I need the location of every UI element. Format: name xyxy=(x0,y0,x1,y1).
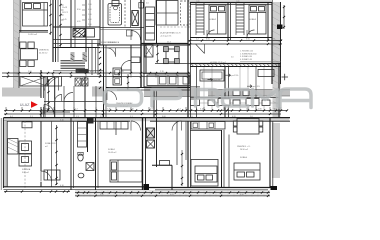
dining table xyxy=(21,49,38,60)
shaft wall x145.5 xyxy=(145,117,147,190)
bed top-left xyxy=(23,3,48,27)
watermark letter P xyxy=(152,90,181,107)
vdim x157.5 xyxy=(157,44,159,63)
svg-text:2.3: 2.3 xyxy=(246,109,249,111)
shaft wall thick x142.5 xyxy=(142,117,144,190)
svg-text:2.0: 2.0 xyxy=(146,3,149,5)
svg-text:0.60: 0.60 xyxy=(88,19,92,21)
dining chairs bottom row xyxy=(20,60,26,66)
svg-text:4.05: 4.05 xyxy=(170,194,174,196)
svg-text:21.4: 21.4 xyxy=(167,42,171,44)
striped closet room2 xyxy=(196,5,204,32)
wardrobe shelves x145-155 xyxy=(146,7,155,40)
corridor wall right y66.5 b xyxy=(190,66,281,68)
svg-text:2.45: 2.45 xyxy=(100,116,104,118)
wall x188 xyxy=(187,0,189,188)
living big wardrobe xyxy=(156,1,178,26)
lower top wall gray fill xyxy=(3,118,289,121)
wall y87.5 x106-190 xyxy=(106,87,190,89)
svg-text:1.2: 1.2 xyxy=(196,39,199,41)
wall x156 xyxy=(156,0,158,44)
gray bottom pavement band xyxy=(75,190,270,197)
bath dashed partition x125 xyxy=(124,0,126,27)
svg-text:1.45: 1.45 xyxy=(107,109,111,111)
bathtub tall xyxy=(108,4,122,26)
door arc x119 xyxy=(121,61,131,71)
wall below bed b xyxy=(18,31,48,33)
faint hline y103 xyxy=(190,102,279,104)
red entrance arrow xyxy=(31,101,38,108)
bed room2 xyxy=(209,5,226,34)
wall x221 lower xyxy=(221,130,223,187)
closet lines room2 xyxy=(195,3,197,36)
core lower wall xyxy=(53,39,100,41)
entrance wall x41 lower2 xyxy=(40,182,42,187)
gray entrance wall block xyxy=(2,88,41,97)
door arc room2 xyxy=(207,30,215,38)
bed lower-right 2 xyxy=(234,163,260,180)
svg-text:1.20: 1.20 xyxy=(88,14,92,16)
shaft white box right xyxy=(86,29,95,38)
svg-text:1.20: 1.20 xyxy=(88,4,92,6)
extension stubs y73 xyxy=(8,73,188,78)
wall x106 mid xyxy=(105,45,107,117)
vline x172 lower xyxy=(171,165,173,190)
svg-text:SOBA 4: SOBA 4 xyxy=(240,156,248,159)
svg-text:1.1: 1.1 xyxy=(130,116,133,118)
wall x103 mid xyxy=(103,45,105,120)
watermark letter A xyxy=(280,89,311,108)
faint partition verticals corridor right xyxy=(204,67,264,110)
bath door small rect xyxy=(127,30,133,36)
svg-text:1.1: 1.1 xyxy=(225,109,228,111)
entrance door arc xyxy=(44,105,54,115)
white punch boxes on band xyxy=(233,90,240,96)
skylight box 2 xyxy=(48,77,62,87)
watermark letter E xyxy=(223,90,249,107)
hatch lower top wall xyxy=(5,118,288,121)
extension stubs y110.5 xyxy=(6,107,281,111)
left wall hatch xyxy=(14,2,20,83)
svg-text:1.6: 1.6 xyxy=(250,116,253,118)
living dashed rect xyxy=(181,1,191,25)
bath wall left x100 xyxy=(99,0,101,45)
gray right outer wall upper xyxy=(273,2,281,120)
hwall y165 segment xyxy=(152,164,172,166)
dim line y110.5 main xyxy=(4,110,287,112)
shaft hatched box xyxy=(73,29,85,38)
bottom wall right xyxy=(149,187,270,189)
bottom dim line xyxy=(75,192,270,194)
svg-text:0.90: 0.90 xyxy=(88,9,92,11)
basin lower xyxy=(78,173,84,178)
svg-text:0.9: 0.9 xyxy=(274,109,277,111)
svg-text:KUPAONICA: KUPAONICA xyxy=(108,41,120,44)
thin line x51 xyxy=(51,121,53,187)
svg-text:2.20: 2.20 xyxy=(130,109,134,111)
hline y130 kitchen xyxy=(190,130,221,132)
washer column x113 xyxy=(113,68,122,77)
core line x75 xyxy=(74,0,76,48)
svg-text:29/17.2: 29/17.2 xyxy=(62,12,68,14)
black wall block bottom shaft xyxy=(144,184,150,190)
shaft wall thick x141 xyxy=(140,0,142,88)
wall x224 lower xyxy=(223,130,225,187)
entrance wall x41 upper xyxy=(40,70,42,98)
lower top wall b1 xyxy=(3,120,130,122)
svg-text:DNEVNI B.: DNEVNI B. xyxy=(39,50,49,52)
top wall gray fill xyxy=(190,0,272,3)
dim line y40.5 xyxy=(188,40,282,42)
dashed line x25 xyxy=(24,121,26,188)
small cabinet x131-140 y57 xyxy=(131,57,140,63)
svg-text:2.90: 2.90 xyxy=(28,71,32,73)
entrance wall x41 lower xyxy=(40,107,42,171)
door arc lower wall x172 xyxy=(172,121,182,131)
couch mid right xyxy=(200,70,224,81)
door arc kitchen x41 xyxy=(41,171,52,182)
svg-text:3.55: 3.55 xyxy=(100,194,104,196)
vline x116 lower xyxy=(115,121,117,135)
core lower wall b xyxy=(53,43,100,45)
closet lines room3 xyxy=(235,3,237,36)
svg-text:1.90: 1.90 xyxy=(44,109,48,111)
top wall y4.5 xyxy=(190,4,272,6)
thin line y63.5 xyxy=(155,63,190,65)
watermark letter O xyxy=(104,90,142,106)
counter top line xyxy=(143,73,190,75)
wall x228 xyxy=(227,3,229,41)
tick column wall x100 xyxy=(99,51,101,89)
right wall hatch xyxy=(273,3,281,113)
left outer wall gray lower xyxy=(3,121,7,187)
bed lower-right 1 xyxy=(195,166,217,182)
core wall x86 xyxy=(85,0,87,62)
stair dark knot xyxy=(76,69,89,73)
kitchen counter hatched xyxy=(8,139,19,155)
bed side line xyxy=(43,3,45,27)
svg-text:2.2: 2.2 xyxy=(178,109,181,111)
svg-text:3.55: 3.55 xyxy=(246,39,250,41)
dining table mid 4 chairs xyxy=(166,49,179,62)
thin line y61.5 right xyxy=(240,61,281,63)
shaft wall x144 xyxy=(143,0,145,88)
svg-text:3.10: 3.10 xyxy=(60,120,64,122)
corridor wall right y63.5 xyxy=(190,63,281,65)
gray wall segment x208 dark xyxy=(208,90,222,97)
slope arrow 2 xyxy=(226,74,231,77)
svg-text:3.10: 3.10 xyxy=(200,109,204,111)
core wall mid x71 xyxy=(70,0,72,48)
svg-text:4. SOBA 15.30: 4. SOBA 15.30 xyxy=(240,58,252,61)
core wall left a xyxy=(52,0,54,62)
wall below living y43.5 xyxy=(141,43,188,45)
door arc hall up xyxy=(55,95,62,102)
plus mark right x286 xyxy=(282,74,289,81)
tv cabinet mid right xyxy=(258,70,274,77)
bottom wall left b xyxy=(3,188,142,190)
wall x230.5 xyxy=(230,3,232,41)
bed room3 xyxy=(249,5,266,34)
svg-text:1.2: 1.2 xyxy=(75,109,78,111)
wall x71 lower xyxy=(70,117,72,190)
svg-text:2.70: 2.70 xyxy=(160,71,164,73)
wall x87 lower xyxy=(87,117,89,152)
bed pillows xyxy=(25,4,32,9)
black junction square x88 xyxy=(88,118,94,124)
vdim x128 xyxy=(127,74,129,90)
pavement hatch xyxy=(78,190,264,197)
kitchen upper cabinet xyxy=(22,122,32,128)
core landing wall xyxy=(53,26,100,28)
vline x256 xyxy=(255,67,257,110)
svg-text:0.8: 0.8 xyxy=(272,39,275,41)
bath wall y27.5 xyxy=(100,27,144,29)
vertical dim right x284 xyxy=(283,5,285,29)
svg-text:3.55: 3.55 xyxy=(206,39,210,41)
bath wall y29.5 b xyxy=(100,29,141,31)
watermark letter M xyxy=(253,90,278,107)
bath small circle xyxy=(114,6,118,10)
wall y90 b xyxy=(117,89,190,91)
skylight X box x144 xyxy=(145,45,154,58)
svg-text:0.9: 0.9 xyxy=(150,109,153,111)
lower rooms top wall xyxy=(3,117,290,119)
svg-text:1.3: 1.3 xyxy=(76,116,79,118)
gray wall segment x222 xyxy=(222,90,290,97)
door swing diagonal top right rooms xyxy=(196,44,205,54)
svg-text:ULAZ: ULAZ xyxy=(20,103,30,107)
wall below bed xyxy=(18,30,48,32)
entry hall line y112 xyxy=(41,111,70,113)
vline x196 xyxy=(196,67,198,117)
svg-text:0.9: 0.9 xyxy=(190,116,193,118)
vdim x50.5 top xyxy=(50,0,52,35)
wall x268 xyxy=(267,3,269,41)
wall x71 b xyxy=(73,121,75,188)
svg-text:2.80: 2.80 xyxy=(258,109,262,111)
left outer wall gray strip xyxy=(14,0,20,88)
black column top right xyxy=(277,25,283,30)
wall y37.5 xyxy=(190,37,272,39)
svg-text:KUHINJA: KUHINJA xyxy=(22,168,31,171)
room outline lower right xyxy=(191,160,218,187)
entrance wall x43.5 xyxy=(43,77,45,98)
left inner wall xyxy=(20,0,22,32)
svg-text:2.1: 2.1 xyxy=(30,116,33,118)
svg-text:SOBA 3: SOBA 3 xyxy=(249,18,257,21)
vertical dim x56.5 xyxy=(56,125,58,185)
bottom dim line b xyxy=(75,195,270,197)
core wall left c xyxy=(57,0,59,62)
vertical dim x48.5 xyxy=(48,79,50,111)
door arc mid small xyxy=(64,93,73,102)
svg-text:0.4: 0.4 xyxy=(10,116,13,118)
right outer wall edge left xyxy=(271,0,273,84)
vline x228 xyxy=(228,67,230,117)
vline x279 xyxy=(278,63,280,117)
left outer wall edge a xyxy=(13,0,15,88)
bath top sink xyxy=(112,1,119,6)
svg-text:0.95: 0.95 xyxy=(77,21,81,23)
corridor wall y47.8 xyxy=(97,47,141,49)
dining table lower right xyxy=(237,119,259,135)
svg-text:1.85: 1.85 xyxy=(236,1,240,3)
gray wall segment x92 xyxy=(92,87,104,97)
gray band edge lines xyxy=(144,87,290,97)
hatch corridor wall right xyxy=(191,64,278,67)
corridor wall y45 xyxy=(97,44,190,46)
svg-text:HODNIK 12.35 m2: HODNIK 12.35 m2 xyxy=(210,62,226,64)
svg-text:SOBA 12.20: SOBA 12.20 xyxy=(45,142,55,145)
wall x95.5 lower xyxy=(95,117,97,190)
svg-text:9.80 m2: 9.80 m2 xyxy=(22,172,29,174)
dark cabinet x131 xyxy=(132,11,139,26)
stair threshold lines xyxy=(61,61,86,69)
dim line y44 xyxy=(188,43,282,45)
big hall door arc xyxy=(45,77,59,91)
wall x156 lower xyxy=(156,117,158,167)
kitchen appliance column xyxy=(19,141,32,154)
wall x154 below corridor xyxy=(153,90,155,118)
svg-text:3.60: 3.60 xyxy=(162,116,166,118)
wardrobe hatch x77-87 xyxy=(78,122,87,148)
vline x229 lower xyxy=(228,135,230,188)
dim line y73 xyxy=(2,72,190,74)
gray right outer wall lower xyxy=(272,123,280,178)
left outer wall edge b xyxy=(18,37,20,88)
wall x190.5 xyxy=(190,0,192,188)
lower top wall b2 xyxy=(150,120,290,122)
svg-text:5.0: 5.0 xyxy=(231,57,234,59)
bottom dim line left xyxy=(4,191,70,193)
left inner wall edge xyxy=(6,121,8,187)
fixtures row right corridor xyxy=(191,99,200,106)
kitchen row lower right xyxy=(191,122,225,130)
vertical dim line x60 xyxy=(60,0,62,48)
vline x177 lower xyxy=(176,121,178,165)
dim line y114 xyxy=(4,113,281,115)
black block right lower xyxy=(271,186,278,190)
svg-text:24.35 m2: 24.35 m2 xyxy=(39,52,48,54)
bed blanket line xyxy=(23,9,48,11)
svg-text:0.95: 0.95 xyxy=(90,71,94,73)
dining chairs top row xyxy=(20,42,26,48)
wc hatched box xyxy=(147,128,155,138)
right outer wall edge right xyxy=(280,2,282,84)
svg-text:p=1.5%: p=1.5% xyxy=(232,75,239,77)
svg-text:1.80: 1.80 xyxy=(75,71,79,73)
core line x90 xyxy=(89,0,91,27)
top wall y2.5 xyxy=(190,2,272,4)
stair jamb hatched strip left xyxy=(71,52,75,62)
stair jamb hatched strip right xyxy=(83,52,88,62)
small hatched squares x75-88 xyxy=(75,78,81,86)
kitchen counter row y75-85 xyxy=(147,75,190,86)
svg-text:8.50: 8.50 xyxy=(77,9,81,11)
right wall inner lower xyxy=(278,84,280,120)
gray wall segment x144 xyxy=(144,87,200,97)
shower lower xyxy=(86,163,94,171)
corridor verticals left xyxy=(44,77,46,117)
vdim x182 lower xyxy=(181,150,183,186)
core wall left b xyxy=(55,0,57,62)
watermark letter R xyxy=(196,90,219,107)
far left thin line xyxy=(0,118,2,190)
vline x186 lower xyxy=(185,121,187,160)
bed lower-middle xyxy=(110,160,142,182)
watermark word OPERA xyxy=(104,89,311,108)
dim line y76.5 xyxy=(2,76,190,78)
stair tick marks upper xyxy=(61,5,86,20)
hatched skylight box 1 wide xyxy=(20,77,47,87)
svg-text:2.10: 2.10 xyxy=(88,24,92,26)
living dashed line y27 xyxy=(160,26,190,28)
door arc x106 y48 xyxy=(107,48,116,57)
slope arrow 3 xyxy=(247,85,252,88)
svg-text:3. SOBA 14.90: 3. SOBA 14.90 xyxy=(240,55,252,58)
bottom wall right b xyxy=(155,189,268,191)
svg-text:3.90: 3.90 xyxy=(240,194,244,196)
toilet lower xyxy=(78,154,83,161)
svg-text:15x18: 15x18 xyxy=(62,7,67,9)
svg-text:m2: m2 xyxy=(45,146,48,148)
core lower wall c xyxy=(53,47,100,49)
wall x95.5 b xyxy=(97,121,99,188)
core extra verticals xyxy=(91,40,93,75)
wardrobe lower-middle xyxy=(100,122,128,130)
hline y101.5 xyxy=(44,101,104,103)
svg-text:p=1.5%: p=1.5% xyxy=(253,86,260,88)
door arc room3 xyxy=(247,30,255,38)
hline y70.8 core xyxy=(53,70,103,72)
svg-text:26.90 m2: 26.90 m2 xyxy=(240,149,248,151)
left outer wall gray line xyxy=(18,0,20,38)
svg-text:+0.15 p=1.5%: +0.15 p=1.5% xyxy=(160,36,172,38)
svg-text:SOBA 2: SOBA 2 xyxy=(209,18,217,21)
slope arrow 1 xyxy=(208,78,213,81)
left outer wall edge xyxy=(2,118,4,188)
svg-text:4.20: 4.20 xyxy=(232,116,236,118)
svg-text:2. KUPAONICA 5.60: 2. KUPAONICA 5.60 xyxy=(240,52,256,55)
wall x131 mid xyxy=(130,45,132,73)
vline x225 xyxy=(224,67,226,117)
right wall lower b xyxy=(272,121,274,186)
small cabinet y161 xyxy=(160,161,170,166)
bath toilet right top xyxy=(139,3,144,9)
wc box 2 xyxy=(147,140,155,148)
wall x156 below corridor xyxy=(156,90,158,118)
bath door arc xyxy=(131,31,141,41)
bottom wall left xyxy=(3,186,145,188)
striped closet room3 xyxy=(236,5,244,32)
door arc x108 lower xyxy=(107,91,117,101)
hline y97.5 right xyxy=(190,97,279,99)
svg-text:IZLAZ NA TERASU 12.70: IZLAZ NA TERASU 12.70 xyxy=(160,32,181,35)
right wall lower rooms xyxy=(269,117,271,188)
bath wall left b xyxy=(102,0,104,45)
wall x146 mid xyxy=(145,45,147,73)
svg-text:SOBA 1: SOBA 1 xyxy=(108,148,116,151)
svg-text:1. HODNIK 4.25: 1. HODNIK 4.25 xyxy=(240,51,253,53)
svg-text:4.10: 4.10 xyxy=(60,185,64,187)
svg-text:DNEVNI B. + K.: DNEVNI B. + K. xyxy=(237,146,251,148)
svg-text:16.65 m2: 16.65 m2 xyxy=(108,152,117,154)
svg-text:14.90 m2: 14.90 m2 xyxy=(28,34,38,36)
bath column line x130 xyxy=(130,0,132,28)
lower-left table x44-60 xyxy=(44,170,60,180)
door arc lower wall x130 xyxy=(131,121,141,131)
